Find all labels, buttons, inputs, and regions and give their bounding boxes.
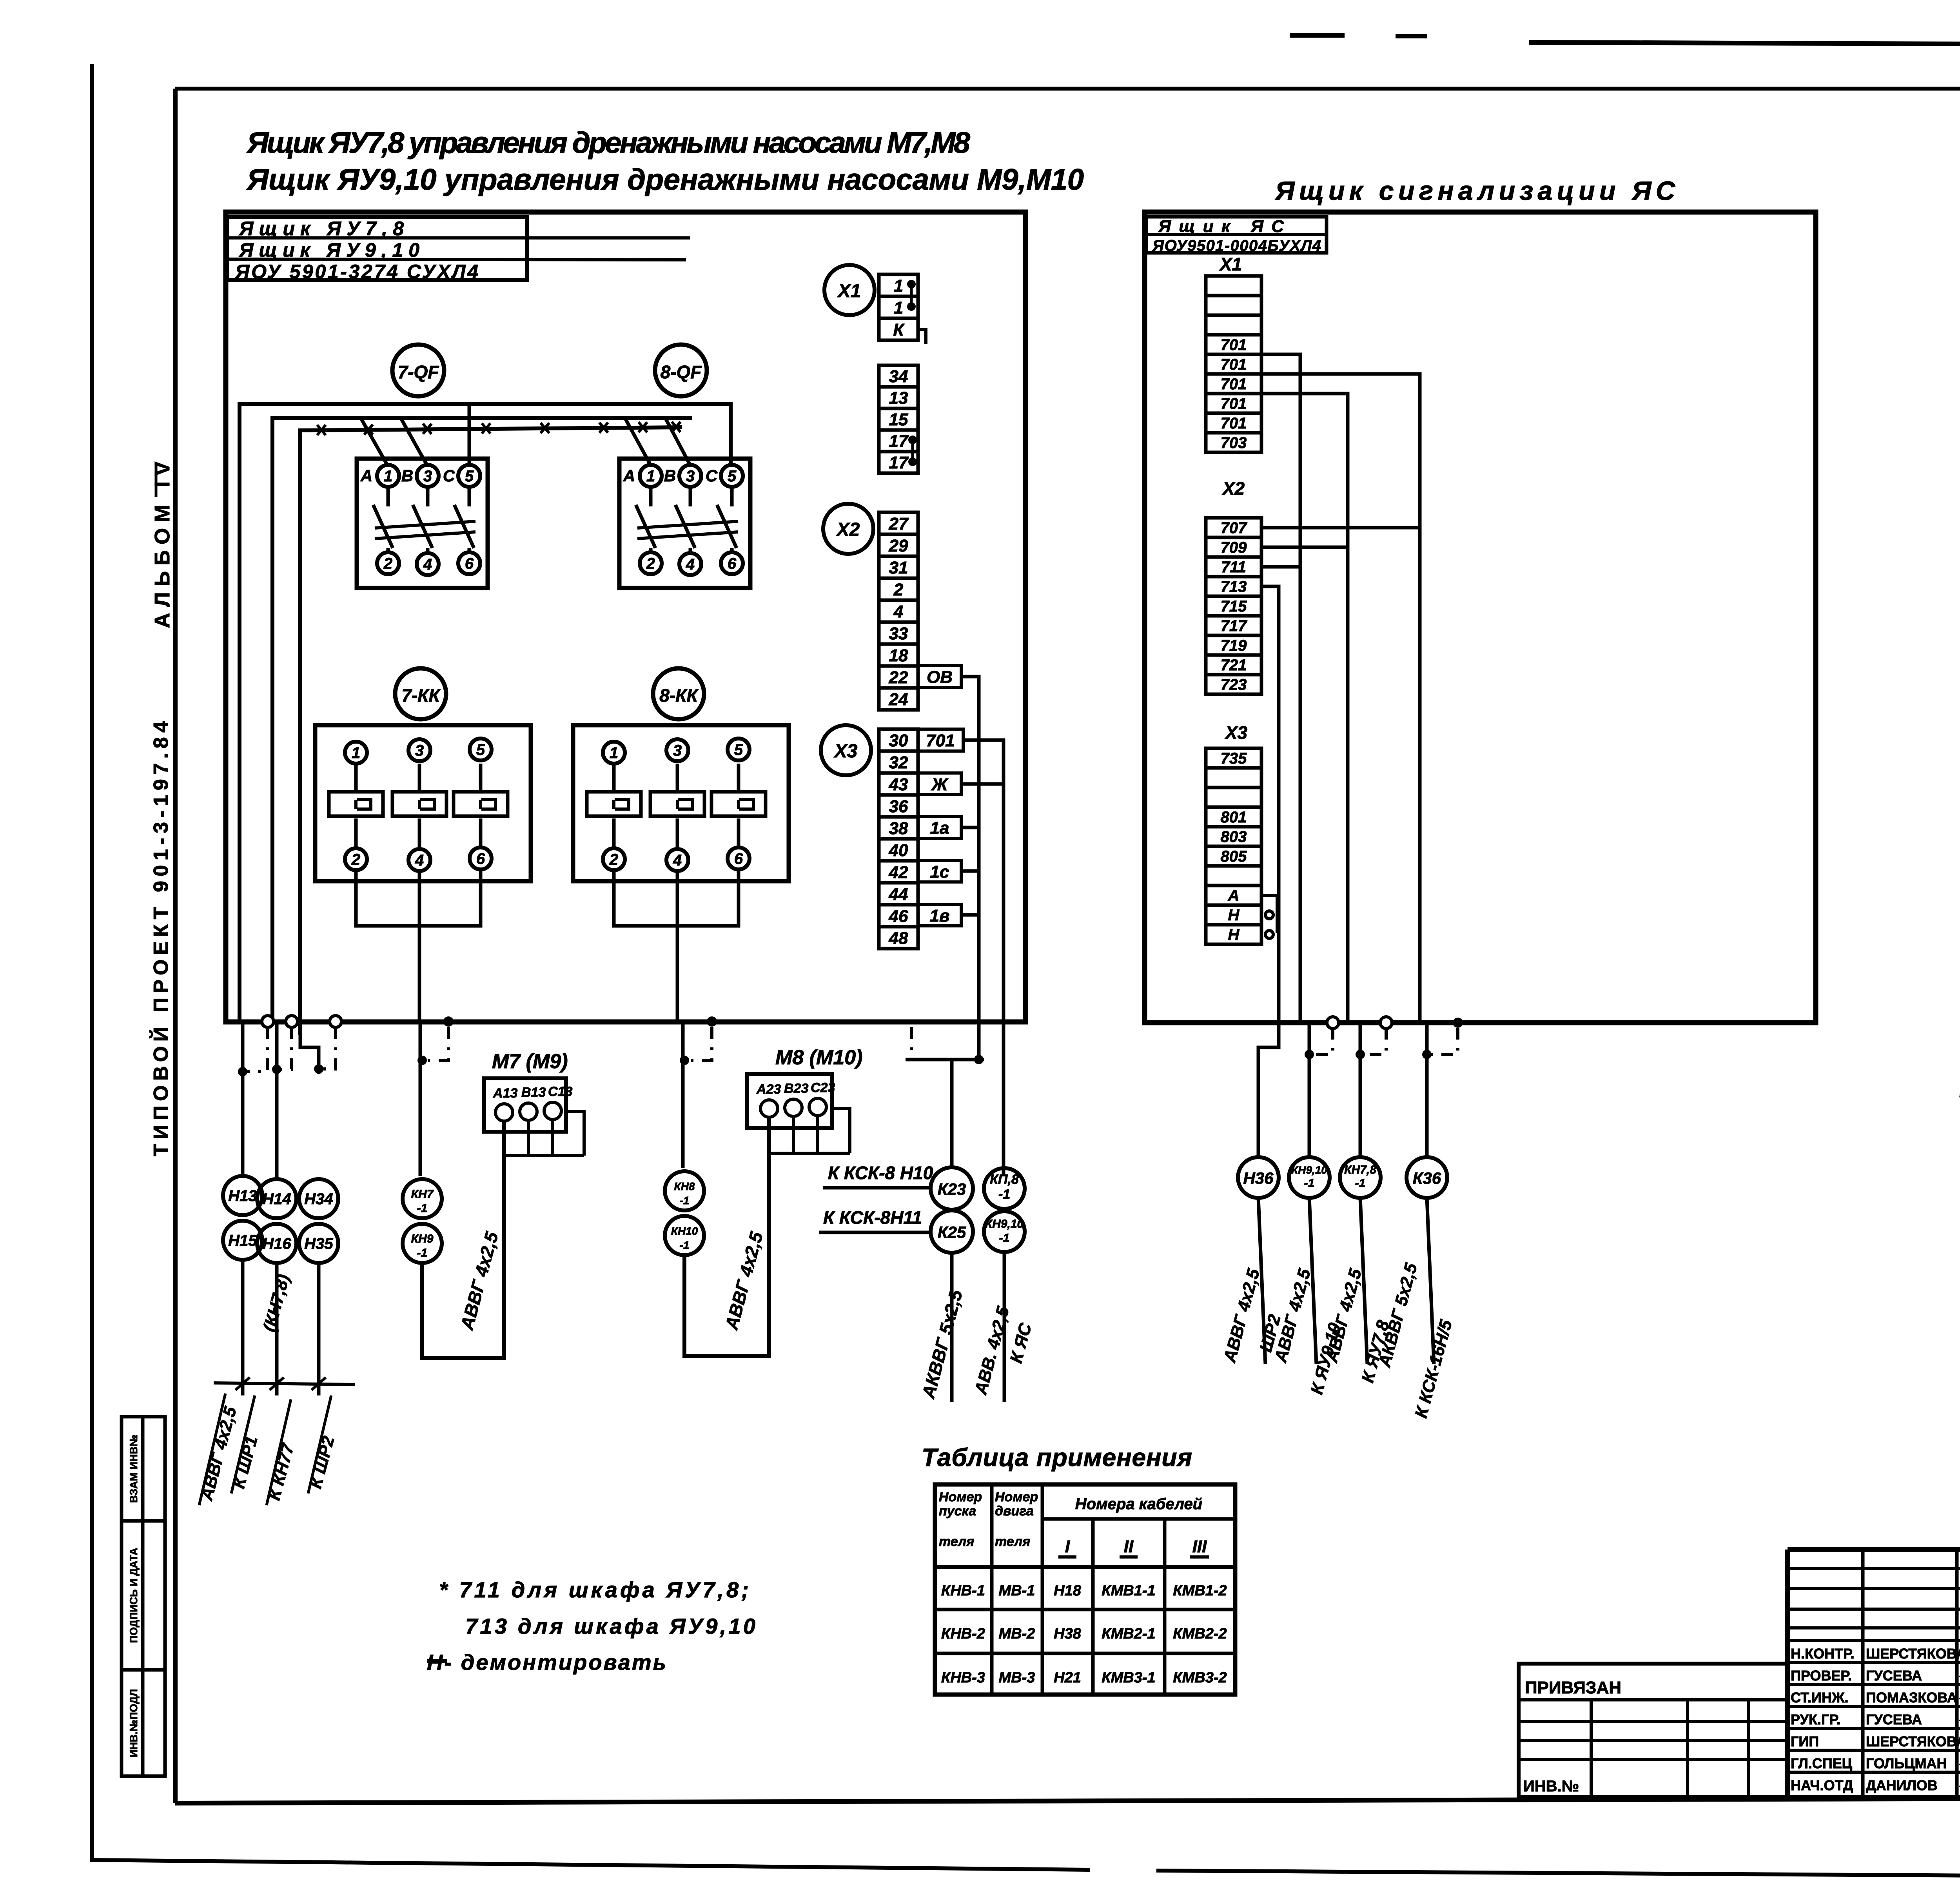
- lamps KN7,8-1 / KN9,10-1: [984, 1168, 1025, 1209]
- svg-text:5: 5: [728, 468, 737, 485]
- wire column KN7-1: [419, 1022, 422, 1176]
- enclosure label box: [227, 217, 527, 280]
- svg-text:805: 805: [1221, 848, 1247, 865]
- wires below YaS lamps: [1258, 1198, 1265, 1364]
- wire KN10-1 U to M8: [684, 1118, 769, 1356]
- terminal 30 tag 701: [918, 729, 963, 751]
- svg-text:-1: -1: [680, 1194, 690, 1207]
- svg-text:31: 31: [889, 558, 908, 577]
- wire bus L1: [240, 404, 731, 1022]
- svg-text:1: 1: [352, 744, 360, 762]
- dash-dot jumper H14: [279, 1027, 292, 1069]
- svg-text:С: С: [443, 466, 455, 485]
- svg-text:6: 6: [476, 850, 485, 867]
- svg-text:КП,8: КП,8: [990, 1172, 1019, 1187]
- svg-text:АВВГ 4х4: АВВГ 4х4: [1956, 1003, 1960, 1095]
- svg-text:Н35: Н35: [304, 1235, 333, 1252]
- svg-text:32: 32: [889, 753, 908, 772]
- svg-text:КН7: КН7: [411, 1188, 434, 1201]
- svg-text:-1: -1: [680, 1239, 690, 1251]
- svg-text:17: 17: [889, 432, 909, 451]
- feeder diagonals to 8-QF: [625, 418, 651, 465]
- svg-text:К ЯС: К ЯС: [1006, 1321, 1035, 1365]
- svg-text:-1: -1: [417, 1247, 428, 1259]
- svg-text:709: 709: [1221, 539, 1247, 556]
- svg-text:713 для шкафа ЯУ9,10: 713 для шкафа ЯУ9,10: [465, 1614, 755, 1639]
- svg-text:803: 803: [1221, 828, 1247, 846]
- wire H34 jog: [300, 1035, 319, 1074]
- terminal block X1 label: [824, 265, 875, 315]
- svg-text:* 711 для шкафа ЯУ7,8;: * 711 для шкафа ЯУ7,8;: [439, 1577, 749, 1602]
- svg-text:30: 30: [889, 731, 908, 750]
- svg-text:ПОДПИСЬ И ДАТА: ПОДПИСЬ И ДАТА: [128, 1548, 140, 1643]
- svg-text:В: В: [401, 466, 413, 485]
- svg-text:719: 719: [1221, 637, 1247, 654]
- svg-text:701: 701: [1221, 415, 1247, 432]
- svg-text:Ящик сигнализации ЯС: Ящик сигнализации ЯС: [1274, 176, 1675, 206]
- svg-text:34: 34: [889, 367, 908, 386]
- svg-text:8-QF: 8-QF: [661, 362, 702, 382]
- svg-text:КН7,8: КН7,8: [1344, 1163, 1376, 1176]
- svg-text:29: 29: [889, 536, 908, 555]
- svg-text:ДАНИЛОВ: ДАНИЛОВ: [1866, 1777, 1938, 1793]
- terminal 46 tag 1v: [918, 904, 961, 926]
- svg-text:801: 801: [1221, 809, 1247, 826]
- terminal 22 OV tag: [918, 666, 961, 688]
- svg-text:1: 1: [894, 298, 903, 318]
- svg-text:6: 6: [465, 555, 474, 572]
- svg-text:КМВ1-1: КМВ1-1: [1102, 1582, 1155, 1599]
- svg-text:ГЛ.СПЕЦ: ГЛ.СПЕЦ: [1791, 1755, 1853, 1771]
- svg-text:6: 6: [734, 850, 743, 867]
- svg-text:27: 27: [889, 514, 909, 533]
- indicator lamps H34/H35: [299, 1179, 338, 1218]
- svg-text:Н38: Н38: [1054, 1626, 1082, 1642]
- YaS terminal block X2: [1206, 518, 1261, 694]
- svg-text:А23: А23: [756, 1082, 781, 1097]
- svg-text:КН9,10: КН9,10: [985, 1218, 1024, 1230]
- svg-text:Н34: Н34: [304, 1190, 333, 1208]
- wire H13 down: [241, 1260, 245, 1395]
- svg-text:36: 36: [889, 797, 908, 816]
- svg-text:ПРОВЕР.: ПРОВЕР.: [1791, 1668, 1852, 1684]
- svg-text:Н15: Н15: [228, 1232, 257, 1249]
- svg-text:ПРИВЯЗАН: ПРИВЯЗАН: [1525, 1678, 1621, 1697]
- svg-text:Н- демонтировать: Н- демонтировать: [427, 1650, 666, 1675]
- wire KN9,10-1 down: [1003, 1252, 1006, 1402]
- wire K23 elbow: [906, 1058, 984, 1062]
- lamp KN9,10-1: [1289, 1157, 1330, 1198]
- YaS wire 713: [1261, 586, 1279, 1022]
- svg-text:X2: X2: [1221, 478, 1245, 499]
- svg-text:К23: К23: [938, 1180, 966, 1198]
- svg-text:-1: -1: [1304, 1177, 1315, 1190]
- motor M8 wires: [792, 1116, 795, 1153]
- wire bottom bus: [226, 1020, 1025, 1024]
- svg-text:43: 43: [889, 775, 908, 794]
- svg-text:К КСК-8 Н10: К КСК-8 Н10: [828, 1163, 933, 1183]
- YaS wire 709: [1261, 546, 1348, 549]
- svg-text:К25: К25: [938, 1223, 966, 1241]
- terminal 43 tag star: [918, 773, 961, 795]
- YaS wire 701-5: [1261, 374, 1420, 1022]
- svg-text:2: 2: [893, 580, 904, 599]
- svg-text:теля: теля: [995, 1534, 1030, 1549]
- svg-text:В13: В13: [521, 1085, 546, 1100]
- svg-text:МВ-1: МВ-1: [999, 1582, 1035, 1599]
- svg-text:X3: X3: [1224, 722, 1248, 743]
- svg-text:ОВ: ОВ: [927, 668, 953, 687]
- terminal block X1: [879, 274, 918, 340]
- indicator lamps H14/H16: [257, 1179, 296, 1218]
- YaS X3 jumper: [1261, 895, 1277, 933]
- junction circles YaS bottom: [1327, 1017, 1339, 1029]
- svg-text:701: 701: [1221, 395, 1247, 412]
- svg-text:5: 5: [734, 741, 743, 758]
- svg-text:II: II: [1124, 1537, 1134, 1556]
- YaS wire 701-4: [1261, 354, 1300, 1022]
- svg-text:7-QF: 7-QF: [398, 362, 440, 382]
- svg-text:АЛЬБОМ IV: АЛЬБОМ IV: [151, 462, 174, 628]
- svg-text:ШЕРСТЯКОВА: ШЕРСТЯКОВА: [1866, 1733, 1960, 1749]
- svg-text:ИНВ.№: ИНВ.№: [1523, 1778, 1579, 1795]
- wire column KN8-1: [681, 1022, 685, 1168]
- dash-dot jumper H34: [321, 1027, 336, 1069]
- terminal block X2 label: [823, 504, 873, 554]
- svg-text:М8 (М10): М8 (М10): [775, 1046, 862, 1069]
- svg-text:-1: -1: [999, 1232, 1010, 1245]
- svg-text:КН8: КН8: [674, 1180, 695, 1192]
- motor M7 wires: [527, 1120, 530, 1156]
- svg-text:6: 6: [728, 555, 737, 572]
- svg-text:38: 38: [889, 819, 908, 838]
- svg-text:2: 2: [383, 555, 392, 572]
- svg-text:7-КК: 7-КК: [401, 685, 441, 706]
- svg-text:707: 707: [1221, 519, 1247, 537]
- svg-text:1: 1: [610, 744, 618, 762]
- svg-text:42: 42: [889, 863, 908, 882]
- YaS label box: [1146, 217, 1327, 253]
- svg-text:ГОЛЬЦМАН: ГОЛЬЦМАН: [1866, 1755, 1947, 1771]
- svg-text:Н: Н: [1228, 907, 1240, 924]
- svg-text:Н18: Н18: [1054, 1582, 1082, 1599]
- svg-text:Таблица применения: Таблица применения: [922, 1443, 1192, 1472]
- svg-text:КМВ3-1: КМВ3-1: [1102, 1669, 1155, 1686]
- wire 1a,1c,1v to OV column: [961, 826, 979, 829]
- YaS wire 701-6: [1261, 394, 1348, 1022]
- svg-text:КМВ2-1: КМВ2-1: [1102, 1626, 1155, 1642]
- svg-text:Н16: Н16: [262, 1235, 291, 1252]
- svg-text:4: 4: [893, 602, 903, 621]
- svg-text:X1: X1: [837, 281, 861, 301]
- svg-text:8-КК: 8-КК: [659, 685, 699, 706]
- svg-text:4: 4: [415, 852, 424, 869]
- feeder diagonals to 7-QF: [361, 418, 387, 465]
- enclosure box YAU7,8: [226, 212, 1025, 1022]
- svg-text:РУК.ГР.: РУК.ГР.: [1791, 1711, 1840, 1727]
- svg-text:18: 18: [889, 646, 908, 665]
- svg-text:723: 723: [1221, 676, 1247, 693]
- svg-text:Ящик ЯУ7,8: Ящик ЯУ7,8: [238, 218, 404, 240]
- svg-text:В23: В23: [784, 1081, 808, 1096]
- svg-text:А: А: [360, 466, 372, 485]
- svg-text:ВЗАМ ИНВ№: ВЗАМ ИНВ№: [128, 1435, 140, 1503]
- svg-text:701: 701: [1221, 336, 1247, 354]
- svg-text:Н36: Н36: [1243, 1169, 1274, 1187]
- wire H14 down: [275, 1263, 279, 1395]
- svg-text:К36: К36: [1413, 1169, 1441, 1187]
- svg-text:ГУСЕВА: ГУСЕВА: [1866, 1711, 1922, 1727]
- svg-text:АВВГ 4х2,5: АВВГ 4х2,5: [456, 1229, 502, 1332]
- svg-text:АВВГ 4х2,5: АВВГ 4х2,5: [721, 1229, 767, 1332]
- svg-text:4: 4: [423, 556, 432, 573]
- wire from OV tag: [961, 677, 979, 1060]
- terminal block X3 label: [821, 725, 871, 775]
- wire columns below YaS: [1308, 1022, 1311, 1157]
- svg-text:ГИП: ГИП: [1791, 1733, 1819, 1749]
- wire bus L3 (to dismantle): [300, 427, 682, 1035]
- svg-text:44: 44: [889, 885, 908, 904]
- svg-text:46: 46: [889, 907, 908, 926]
- svg-text:Номер: Номер: [939, 1490, 982, 1504]
- svg-text:717: 717: [1221, 617, 1247, 635]
- indicator lamps KN7-1/KN9-1: [403, 1179, 442, 1218]
- svg-text:701: 701: [1221, 356, 1247, 373]
- circuit breaker 7-QF: [392, 345, 444, 396]
- svg-text:КН9: КН9: [411, 1232, 434, 1245]
- svg-text:КМВ3-2: КМВ3-2: [1173, 1669, 1227, 1686]
- svg-text:1с: 1с: [930, 862, 949, 882]
- YaS terminal block X3: [1206, 748, 1261, 944]
- YaS terminal block X1: [1206, 276, 1261, 452]
- svg-text:5: 5: [476, 741, 485, 758]
- svg-text:Н13: Н13: [228, 1187, 257, 1205]
- svg-text:X2: X2: [836, 519, 860, 540]
- svg-text:ШЕРСТЯКОВА: ШЕРСТЯКОВА: [1866, 1646, 1960, 1662]
- dash-dot jumper K36: [1430, 1028, 1458, 1054]
- svg-text:4: 4: [673, 852, 682, 869]
- wire KN9-1 U to M7: [422, 1122, 504, 1358]
- svg-text:2: 2: [351, 851, 360, 868]
- indicator lamps H13/H15: [223, 1176, 262, 1215]
- svg-text:НАЧ.ОТД: НАЧ.ОТД: [1791, 1777, 1853, 1793]
- drawing frame: [173, 89, 178, 1803]
- svg-text:-1: -1: [417, 1202, 428, 1215]
- svg-text:С13: С13: [548, 1084, 572, 1099]
- lamp KN7,8-1: [1340, 1157, 1381, 1198]
- svg-text:А: А: [623, 466, 635, 485]
- svg-text:22: 22: [889, 668, 908, 687]
- sheet outer border top: [1290, 33, 1345, 38]
- svg-text:1в: 1в: [929, 906, 949, 925]
- wire column H13: [241, 1022, 245, 1176]
- svg-text:33: 33: [889, 624, 908, 643]
- svg-text:А: А: [1228, 887, 1240, 904]
- svg-text:КН9,10: КН9,10: [1291, 1164, 1327, 1176]
- svg-text:Н21: Н21: [1054, 1669, 1081, 1686]
- lamp H36: [1238, 1157, 1279, 1198]
- YaS jog H36: [1258, 1023, 1279, 1058]
- svg-text:ПОМАЗКОВА: ПОМАЗКОВА: [1866, 1689, 1957, 1706]
- svg-text:двига: двига: [995, 1504, 1034, 1519]
- svg-text:С: С: [706, 466, 718, 485]
- sheet outer border left: [90, 64, 94, 1862]
- title block: [1788, 1547, 1960, 1552]
- sheet outer border bottom: [92, 1860, 1090, 1870]
- dash-dot jumper M8 feeder: [687, 1027, 712, 1060]
- svg-text:АКВВГ 5х2,5: АКВВГ 5х2,5: [1375, 1261, 1421, 1370]
- dash-dot jumper H13: [245, 1027, 268, 1072]
- svg-text:(КН7,8): (КН7,8): [260, 1272, 293, 1334]
- contactor coil K25: [931, 1210, 973, 1253]
- svg-text:ТИПОВОЙ ПРОЕКТ 901-3-197.84: ТИПОВОЙ ПРОЕКТ 901-3-197.84: [149, 721, 172, 1156]
- application table: [935, 1484, 1235, 1695]
- svg-text:701: 701: [926, 731, 955, 750]
- terminal 38 tag 1a: [918, 817, 961, 838]
- svg-text:713: 713: [1221, 578, 1247, 595]
- svg-text:АВВГ 4х2,5: АВВГ 4х2,5: [1322, 1267, 1365, 1365]
- cable bracket left group: [214, 1383, 355, 1384]
- svg-text:3: 3: [673, 742, 682, 759]
- svg-text:III: III: [1192, 1537, 1207, 1556]
- terminal block X1 group 34-17: [879, 365, 918, 473]
- svg-text:КМВ2-2: КМВ2-2: [1173, 1626, 1227, 1642]
- svg-text:721: 721: [1221, 657, 1247, 674]
- YaS wire 707: [1261, 526, 1420, 530]
- svg-text:ИНВ.№ПОДЛ: ИНВ.№ПОДЛ: [128, 1689, 140, 1757]
- svg-text:5: 5: [465, 468, 474, 485]
- terminal block X2: [879, 512, 918, 710]
- svg-text:МВ-2: МВ-2: [999, 1626, 1035, 1642]
- svg-text:ЯОУ 5901-3274 СУХЛ4: ЯОУ 5901-3274 СУХЛ4: [234, 261, 478, 283]
- dash-dot jumper KN9,10: [1312, 1028, 1333, 1054]
- svg-text:Ящик ЯУ7,8 управления дре: Ящик ЯУ7,8 управления дренажными насосам…: [246, 126, 971, 160]
- circuit breaker 8-QF: [655, 345, 707, 396]
- svg-text:4: 4: [686, 556, 695, 573]
- svg-text:X1: X1: [1219, 254, 1242, 274]
- svg-text:1: 1: [646, 468, 655, 485]
- svg-text:К КСК-16Н/5: К КСК-16Н/5: [1411, 1318, 1456, 1420]
- svg-text:АВВ. 4х2,5: АВВ. 4х2,5: [971, 1304, 1013, 1397]
- svg-text:К КСК-8Н11: К КСК-8Н11: [823, 1207, 922, 1228]
- svg-text:40: 40: [889, 841, 908, 860]
- svg-text:МВ-3: МВ-3: [999, 1669, 1035, 1686]
- wire 701/43 to lamp column: [963, 740, 1004, 1176]
- svg-text:КНВ-3: КНВ-3: [941, 1669, 985, 1686]
- terminal block X3: [879, 729, 918, 949]
- svg-text:АВВГ 4х2,5: АВВГ 4х2,5: [1220, 1267, 1263, 1365]
- svg-text:701: 701: [1221, 376, 1247, 393]
- svg-text:Ж: Ж: [931, 775, 949, 794]
- svg-text:711: 711: [1221, 559, 1246, 576]
- svg-text:703: 703: [1221, 434, 1247, 452]
- wire K25 down: [950, 1253, 954, 1402]
- svg-text:-1: -1: [998, 1187, 1010, 1202]
- svg-text:КНВ-1: КНВ-1: [941, 1582, 985, 1599]
- svg-text:3: 3: [686, 468, 695, 485]
- svg-text:13: 13: [889, 388, 908, 408]
- junction circles on bus: [262, 1016, 274, 1027]
- privyazan box: [1519, 1664, 1788, 1797]
- dash-dot K23 feeder: [910, 1027, 913, 1060]
- svg-text:Ящик ЯУ9,10 управления дре: Ящик ЯУ9,10 управления дренажными насоса…: [246, 163, 1084, 196]
- svg-text:15: 15: [889, 410, 908, 429]
- svg-text:Н14: Н14: [262, 1190, 291, 1208]
- coil K36: [1406, 1157, 1447, 1198]
- svg-text:2: 2: [646, 555, 655, 572]
- svg-text:-1: -1: [1355, 1177, 1366, 1190]
- svg-text:М7 (М9): М7 (М9): [492, 1050, 568, 1073]
- svg-text:X3: X3: [833, 741, 858, 762]
- wire bus L2: [272, 418, 692, 1022]
- sidebar stamp table: [122, 1417, 165, 1776]
- svg-text:24: 24: [889, 690, 908, 709]
- svg-text:Н.КОНТР.: Н.КОНТР.: [1791, 1646, 1855, 1662]
- indicator lamps KN18-1/KN110-1: [665, 1171, 704, 1210]
- svg-text:Номер: Номер: [995, 1490, 1038, 1504]
- svg-text:I: I: [1065, 1537, 1070, 1556]
- thermal relay 7-KK: [395, 668, 446, 719]
- svg-text:735: 735: [1221, 750, 1247, 767]
- svg-text:С23: С23: [811, 1080, 835, 1095]
- svg-text:КН10: КН10: [671, 1225, 698, 1237]
- svg-text:ГУСЕВА: ГУСЕВА: [1866, 1668, 1922, 1684]
- svg-text:КНВ-2: КНВ-2: [941, 1626, 985, 1642]
- svg-text:АКВВГ 5х2,5: АКВВГ 5х2,5: [918, 1287, 966, 1401]
- svg-text:А13: А13: [493, 1086, 517, 1101]
- svg-text:2: 2: [609, 851, 618, 868]
- YaS wire 711: [1261, 565, 1300, 569]
- svg-text:1: 1: [894, 276, 903, 296]
- svg-text:3: 3: [423, 468, 432, 485]
- svg-text:ЯОУ9501-0004БУХЛ4: ЯОУ9501-0004БУХЛ4: [1152, 237, 1321, 254]
- svg-text:В: В: [664, 466, 676, 485]
- svg-text:1: 1: [384, 468, 392, 485]
- svg-text:48: 48: [889, 929, 908, 948]
- svg-text:СТ.ИНЖ.: СТ.ИНЖ.: [1791, 1689, 1848, 1706]
- contactor coil K23: [931, 1167, 973, 1210]
- svg-text:К: К: [893, 320, 905, 339]
- svg-text:1а: 1а: [930, 818, 949, 838]
- svg-text:пуска: пуска: [939, 1504, 976, 1519]
- terminal 42 tag 1c: [918, 860, 961, 882]
- dash-dot jumper KN7,8: [1363, 1028, 1386, 1054]
- dash-dot jumper M7 feeder: [425, 1027, 448, 1060]
- svg-text:17: 17: [889, 453, 909, 472]
- svg-text:Номера кабелей: Номера кабелей: [1075, 1495, 1203, 1513]
- svg-text:715: 715: [1221, 598, 1247, 615]
- thermal relay 8-KK: [653, 668, 704, 719]
- enclosure box YaS: [1145, 212, 1816, 1023]
- svg-text:3: 3: [415, 742, 424, 759]
- wire column H14: [275, 1022, 279, 1179]
- svg-text:Ящик ЯУ9,10: Ящик ЯУ9,10: [238, 239, 419, 261]
- svg-text:Н: Н: [1228, 926, 1240, 944]
- wire H34 down: [317, 1263, 321, 1395]
- svg-text:КМВ1-2: КМВ1-2: [1173, 1582, 1227, 1599]
- svg-text:теля: теля: [939, 1534, 974, 1549]
